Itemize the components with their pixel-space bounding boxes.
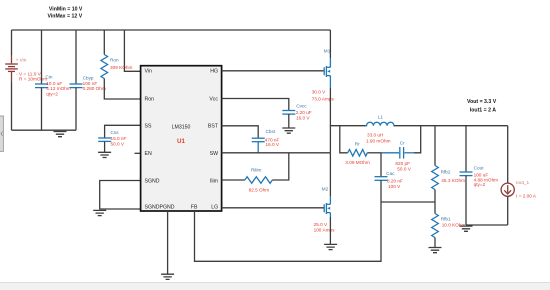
wire LG to M2 gate [222, 207, 324, 209]
svg-text:BST: BST [208, 123, 219, 129]
wire Cvcc bottom lead [288, 114, 290, 128]
capacitor Cout [460, 172, 473, 176]
ground PGND [161, 274, 174, 279]
wire Rr branch down [340, 126, 348, 153]
wire Cin bottom lead [41, 88, 43, 131]
svg-text:Vcc: Vcc [209, 97, 218, 103]
capacitor Cac [375, 177, 388, 181]
wire Cbst bottom lead to SW [257, 142, 259, 153]
svg-text:Rr: Rr [355, 141, 360, 146]
svg-text:Cbst: Cbst [266, 129, 276, 134]
svg-text:Vin: Vin [145, 69, 153, 75]
svg-text:33.0 uH: 33.0 uH [367, 133, 383, 138]
wire HG to M1 gate [222, 70, 324, 72]
ground Rfb1 [429, 248, 442, 253]
svg-text:EN: EN [145, 151, 152, 157]
capacitor Cr [400, 147, 404, 159]
wire Iout bottom lead [507, 196, 509, 225]
svg-text:309 KOhm: 309 KOhm [110, 65, 133, 70]
svg-text:50.0 V: 50.0 V [111, 142, 125, 147]
wire Iout top lead [507, 126, 509, 183]
wire Vcc to Cvcc [222, 99, 289, 111]
svg-text:820 pF: 820 pF [395, 161, 410, 166]
svg-text:Iout_1: Iout_1 [516, 180, 529, 185]
transistor M1 [324, 58, 330, 88]
svg-text:100 Amps: 100 Amps [314, 228, 336, 233]
svg-text:Css: Css [111, 130, 120, 135]
resistor Rilim [245, 177, 272, 184]
wire SW node down to M2 [329, 153, 331, 196]
svg-text:Iout1 = 2 A: Iout1 = 2 A [470, 107, 496, 113]
wire Ilim lead [222, 179, 245, 181]
svg-text:Cr: Cr [400, 140, 405, 145]
op-amp U1 LM3150 body [141, 66, 222, 211]
left panel collapse tab [0, 116, 3, 151]
wire bottom left bus [12, 129, 77, 131]
wire Vin pin branch [124, 30, 140, 71]
wire Cout top lead [465, 126, 467, 172]
svg-text:FB: FB [191, 204, 198, 210]
svg-text:82.5 Ohm: 82.5 Ohm [249, 187, 270, 192]
svg-text:3.09 MOhm: 3.09 MOhm [345, 160, 370, 165]
svg-text:VinMax = 12 V: VinMax = 12 V [48, 14, 83, 20]
svg-text:qty=2: qty=2 [46, 91, 58, 96]
capacitor Cbst [252, 138, 265, 142]
wire PGND pin down [167, 211, 169, 274]
ground Cout [460, 226, 473, 231]
wire M1 drain from bus [329, 30, 331, 58]
svg-text:Cvcc: Cvcc [296, 103, 307, 108]
wire Rfb1 to ground [434, 238, 436, 248]
capacitor Cbyp [70, 84, 83, 88]
svg-text:VinMin = 10 V: VinMin = 10 V [49, 7, 83, 13]
wire SW node to L1 [330, 125, 366, 127]
svg-text:Cbyp: Cbyp [83, 76, 94, 81]
transistor M2 [324, 196, 330, 217]
wire M2 source to ground [329, 217, 331, 244]
svg-text:16.0 V: 16.0 V [266, 142, 280, 147]
svg-text:2.20 uF: 2.20 uF [296, 110, 312, 115]
svg-text:I = 2.00 A: I = 2.00 A [516, 194, 537, 199]
svg-text:Cin: Cin [45, 75, 52, 80]
wire Rfb2 top lead [434, 126, 436, 166]
svg-text:R = 10mOhm: R = 10mOhm [19, 76, 47, 81]
wire Cac top lead [380, 153, 382, 177]
bottom status panel [0, 282, 550, 290]
resistor Ron [101, 55, 108, 79]
capacitor Cvcc [282, 111, 295, 115]
svg-text:SGND: SGND [145, 205, 160, 211]
svg-text:16.0 V: 16.0 V [296, 116, 310, 121]
svg-text:qty=2: qty=2 [474, 182, 486, 187]
svg-text:Rfb1: Rfb1 [441, 217, 451, 222]
svg-text:50.0 V: 50.0 V [397, 167, 411, 172]
wire EN stub [135, 152, 141, 154]
svg-text:30.0 V: 30.0 V [312, 90, 326, 95]
resistor Rr [348, 150, 368, 157]
svg-text:PGND: PGND [160, 205, 175, 211]
svg-text:8.20 nF: 8.20 nF [387, 179, 403, 184]
wire Vin source top lead [11, 30, 13, 55]
ground Cvcc [282, 128, 295, 133]
wire Cin top lead [41, 30, 43, 84]
svg-text:Cout: Cout [474, 165, 485, 170]
wire Vin source bottom lead [11, 82, 13, 130]
svg-text:25.0 V: 25.0 V [314, 222, 328, 227]
wire Rfb2 bottom lead [434, 190, 436, 214]
wire Rr to Cr [367, 152, 381, 154]
svg-text:Ron: Ron [145, 97, 155, 103]
wire Cout bottom lead [465, 176, 467, 225]
svg-text:Vout = 3.3 V: Vout = 3.3 V [467, 99, 497, 105]
svg-text:SS: SS [145, 123, 152, 129]
inductor L1 [365, 122, 395, 125]
wire SGND loop [100, 181, 141, 210]
wire BST to Cbst [222, 126, 259, 138]
svg-text:Ilim: Ilim [210, 178, 218, 184]
svg-text:100 V: 100 V [388, 184, 401, 189]
svg-text:45.3 KOhm: 45.3 KOhm [441, 178, 465, 183]
ground M2 [324, 244, 337, 249]
wire FB node to Rfb junction [381, 201, 435, 203]
wire Vout bus [394, 125, 507, 127]
svg-text:M2: M2 [322, 187, 329, 192]
wire FB pin loop [195, 202, 382, 261]
svg-text:Ron: Ron [110, 57, 119, 62]
wire top input bus [12, 29, 331, 31]
resistor Rfb1 [432, 214, 439, 238]
wire M1 source to SW node [329, 88, 331, 153]
svg-text:+ Vin: + Vin [16, 58, 27, 63]
wire Cbyp bottom lead [75, 88, 77, 131]
svg-text:HG: HG [210, 69, 218, 75]
wire Css bottom lead [104, 141, 106, 152]
svg-text:73.0 Amps: 73.0 Amps [312, 96, 335, 101]
wire Cac bottom lead [380, 180, 382, 202]
svg-text:L1: L1 [378, 115, 384, 120]
svg-text:M1: M1 [324, 49, 331, 54]
wire SW bus [222, 152, 331, 154]
svg-text:Cac: Cac [386, 171, 395, 176]
wire Cbyp top lead [75, 30, 77, 84]
svg-text:Rfb2: Rfb2 [441, 170, 451, 175]
svg-text:1.90 mOhm: 1.90 mOhm [366, 138, 391, 143]
svg-text:U1: U1 [177, 138, 185, 145]
capacitor Css [98, 138, 111, 141]
wire Cr left lead [381, 152, 399, 154]
resistor Rfb2 [432, 166, 439, 190]
ground Css [98, 152, 111, 157]
svg-text:LG: LG [211, 204, 218, 210]
svg-text:Rilim: Rilim [251, 167, 262, 172]
wire Ron to pin [104, 79, 140, 100]
capacitor Cin [35, 84, 48, 88]
voltage source Vin [5, 55, 18, 82]
wire Ron top lead [103, 30, 105, 55]
svg-text:LM3150: LM3150 [172, 124, 191, 130]
ground SGND [93, 210, 106, 215]
current source Iout_1 [501, 183, 514, 196]
wire Cr to Vout bus [414, 126, 421, 153]
wire Rilim to SW [272, 153, 289, 180]
wire SS pin to Css [105, 125, 141, 138]
wire load return [466, 224, 508, 226]
svg-text:SGND: SGND [145, 178, 160, 184]
ground left bus [54, 132, 67, 137]
wire Cr right lead [404, 152, 414, 154]
svg-text:SW: SW [210, 151, 218, 157]
svg-text:0.280 Ohm: 0.280 Ohm [83, 86, 106, 91]
svg-text:15.0 nF: 15.0 nF [111, 136, 127, 141]
